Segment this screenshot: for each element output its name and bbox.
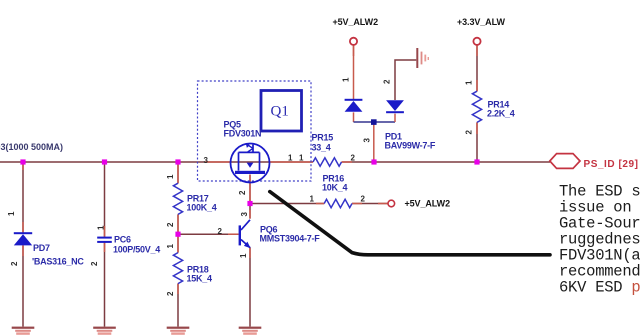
wire drain net to PR16 y=203.5 (250, 203, 388, 205)
ground (167, 327, 190, 335)
wire PR17/PR18 branch vertical (177, 162, 179, 327)
power +5V_ALW2 (top) (350, 38, 357, 45)
wire pin stub (177, 214, 179, 234)
off-page connector PS_ID [29] (550, 154, 580, 169)
wire pin stub (177, 234, 179, 252)
junction node (20, 159, 25, 164)
resistor R14 (PR14 2.2K_4) (472, 91, 481, 122)
wire pin stub (177, 284, 179, 294)
junction node PD1 common (371, 119, 377, 125)
svg-text:MMST3904-7-F: MMST3904-7-F (260, 234, 321, 244)
svg-text:FDV301N: FDV301N (224, 129, 262, 139)
wire +5V_ALW2 drop to PD1 pin1 (353, 45, 355, 122)
junction node (102, 159, 107, 164)
svg-text:2: 2 (10, 261, 19, 266)
junction node (247, 201, 252, 206)
svg-text:100P/50V_4: 100P/50V_4 (113, 245, 160, 255)
svg-text:2: 2 (361, 195, 366, 204)
resistor R17 (PR17 100K_4) (173, 183, 182, 214)
wire pin stub (249, 210, 251, 219)
svg-text:1: 1 (310, 195, 315, 204)
ground (12, 327, 35, 335)
wire pin stub (342, 161, 353, 163)
wire pin stub (378, 203, 388, 205)
svg-text:03(1000 500MA): 03(1000 500MA) (0, 142, 63, 152)
svg-text:2.2K_4: 2.2K_4 (487, 109, 515, 119)
svg-text:PS_ID [29]: PS_ID [29] (584, 159, 639, 170)
svg-text:2: 2 (383, 79, 392, 84)
svg-text:2: 2 (238, 190, 247, 195)
svg-text:1: 1 (166, 244, 175, 249)
wire pin stub (104, 242, 106, 252)
svg-text:1: 1 (239, 253, 248, 258)
wire PQ6 base horizontal y=234 (178, 233, 239, 235)
svg-text:2: 2 (351, 154, 356, 163)
capacitor C6 (PC6) (97, 237, 112, 243)
wire pin stub (353, 45, 355, 56)
wire pin stub (22, 162, 24, 170)
svg-text:10K_4: 10K_4 (322, 183, 348, 193)
wire pin stub (270, 161, 314, 163)
transistor Q6 NPN MMST3904 (PQ6) (239, 220, 251, 248)
wire pin stub (177, 162, 179, 183)
diode PD7 (14, 232, 32, 245)
power +5V_ALW2 (right of PR16) (388, 200, 395, 207)
wire main net right segment y=162 (342, 161, 551, 163)
svg-text:3: 3 (363, 138, 372, 143)
callout pointer line (270, 192, 550, 255)
junction node (371, 159, 376, 164)
svg-text:1: 1 (166, 174, 175, 179)
junction node (474, 159, 479, 164)
svg-text:PR15: PR15 (312, 133, 334, 143)
svg-text:'BAS316_NC: 'BAS316_NC (32, 257, 84, 267)
wire pin stub (104, 226, 106, 237)
svg-text:1: 1 (97, 225, 106, 230)
svg-text:2: 2 (166, 291, 175, 296)
svg-text:33_4: 33_4 (312, 143, 331, 153)
dashed highlight box around PQ5 (198, 81, 312, 181)
svg-text:2: 2 (166, 222, 175, 227)
svg-text:1: 1 (342, 77, 351, 82)
transistor Q5 MOSFET FDV301N (PQ5) (231, 144, 270, 183)
svg-text:PC6: PC6 (114, 235, 131, 245)
wire main net left segment y=162 (0, 161, 313, 163)
wire pin stub (22, 245, 24, 256)
junction node (175, 232, 180, 237)
ground (239, 327, 262, 335)
wire pin stub (249, 247, 251, 258)
wire PD1 pin2 to ground arm (394, 114, 396, 122)
wire PD1 common drop to main net (373, 122, 375, 162)
wire pin stub (228, 233, 239, 235)
wire pin stub (476, 45, 478, 56)
svg-text:6KV ESD p: 6KV ESD p (559, 279, 640, 297)
svg-text:2: 2 (218, 227, 223, 236)
diode PD1 right half (to GND) (386, 100, 404, 113)
wire pin stub (316, 203, 324, 205)
svg-text:Q1: Q1 (271, 104, 289, 120)
ground (93, 327, 116, 335)
svg-text:+5V_ALW2: +5V_ALW2 (333, 17, 379, 27)
svg-text:3: 3 (240, 212, 249, 217)
wire pin stub (22, 222, 24, 233)
note text block (559, 183, 640, 297)
callout box Q1 (261, 91, 302, 132)
resistor R18 (PR18 15K_4) (173, 253, 182, 284)
wire pin stub (205, 161, 231, 163)
svg-text:+5V_ALW2: +5V_ALW2 (405, 199, 451, 209)
resistor R16 (PR16 10K_4) (324, 199, 352, 207)
svg-text:3: 3 (204, 156, 209, 165)
wire pin stub (352, 203, 362, 205)
svg-text:1: 1 (465, 80, 474, 85)
svg-text:15K_4: 15K_4 (187, 274, 213, 284)
junction node (175, 159, 180, 164)
resistor R15 (PR15 33_4) (313, 158, 342, 166)
wire PC6 branch vertical (104, 162, 106, 327)
svg-text:+3.3V_ALW: +3.3V_ALW (457, 17, 505, 27)
svg-text:BAV99W-7-F: BAV99W-7-F (385, 141, 436, 151)
wire PD7 branch vertical (22, 162, 24, 327)
svg-text:2: 2 (465, 130, 474, 135)
svg-text:PD7: PD7 (33, 243, 50, 253)
wire pin stub (249, 175, 251, 204)
wire +3.3V_ALW drop through PR14 (476, 45, 478, 162)
wire pin stub (476, 80, 478, 91)
wire PD1 bottom link (354, 121, 396, 123)
svg-text:1: 1 (299, 154, 304, 163)
power +3.3V_ALW (473, 38, 480, 45)
diode PD1 left half (to +5V) (345, 99, 363, 112)
wire MOSFET drain / PQ6 collector vertical (249, 175, 251, 327)
svg-text:2: 2 (90, 261, 99, 266)
svg-text:100K_4: 100K_4 (187, 203, 217, 213)
wire pin stub (476, 122, 478, 134)
svg-text:1: 1 (288, 154, 293, 163)
svg-text:1: 1 (7, 211, 16, 216)
ground (rotated, PD1 pin2) (416, 48, 429, 68)
